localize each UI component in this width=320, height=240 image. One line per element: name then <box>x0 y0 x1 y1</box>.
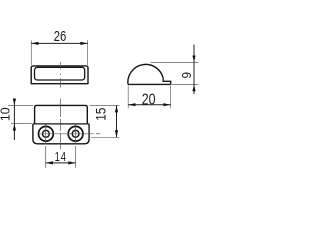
svg-text:10: 10 <box>0 107 13 121</box>
front view centerline <box>59 99 61 149</box>
side view step and ledge <box>163 78 171 84</box>
dim 10 line <box>13 99 15 140</box>
dim 26 line <box>31 42 87 44</box>
svg-text:9: 9 <box>179 72 194 79</box>
dim 20 arrows <box>128 103 135 106</box>
eyelet left outer <box>39 126 54 141</box>
dim 15 extension lines <box>90 105 120 137</box>
dim 10 extension lines <box>8 105 34 123</box>
dim 26 arrows <box>32 42 39 45</box>
top view outer rect <box>31 66 88 84</box>
dim 14 line <box>46 162 76 164</box>
dim 9 line <box>193 45 195 95</box>
front view body <box>35 105 88 124</box>
front view step line <box>33 123 89 125</box>
eyelet right inner <box>72 130 79 137</box>
dim 9 extension lines <box>151 62 199 84</box>
svg-text:26: 26 <box>54 27 67 44</box>
dim 26 extension lines <box>31 40 87 65</box>
top view inner rect <box>35 67 85 80</box>
side view base line <box>128 83 171 85</box>
dim 15 arrows <box>115 106 118 113</box>
top view centerline <box>59 62 61 88</box>
eyelet vertical centerlines + dim 14 extensions <box>46 125 76 168</box>
dim 9 arrows <box>192 56 195 63</box>
dim 14 arrows <box>46 161 53 164</box>
dim 15 line <box>116 105 118 137</box>
svg-text:14: 14 <box>55 151 67 165</box>
side view dome arc <box>128 64 163 84</box>
eyelet horizontal centerline <box>39 133 101 135</box>
dim 20 extension lines <box>128 86 170 109</box>
svg-text:20: 20 <box>142 90 156 108</box>
eyelet right outer <box>68 126 83 141</box>
svg-text:15: 15 <box>93 108 109 121</box>
dim 10 arrows <box>13 99 16 106</box>
eyelet left inner <box>43 130 50 137</box>
dim 20 line <box>128 104 170 106</box>
front view flange <box>33 124 89 144</box>
